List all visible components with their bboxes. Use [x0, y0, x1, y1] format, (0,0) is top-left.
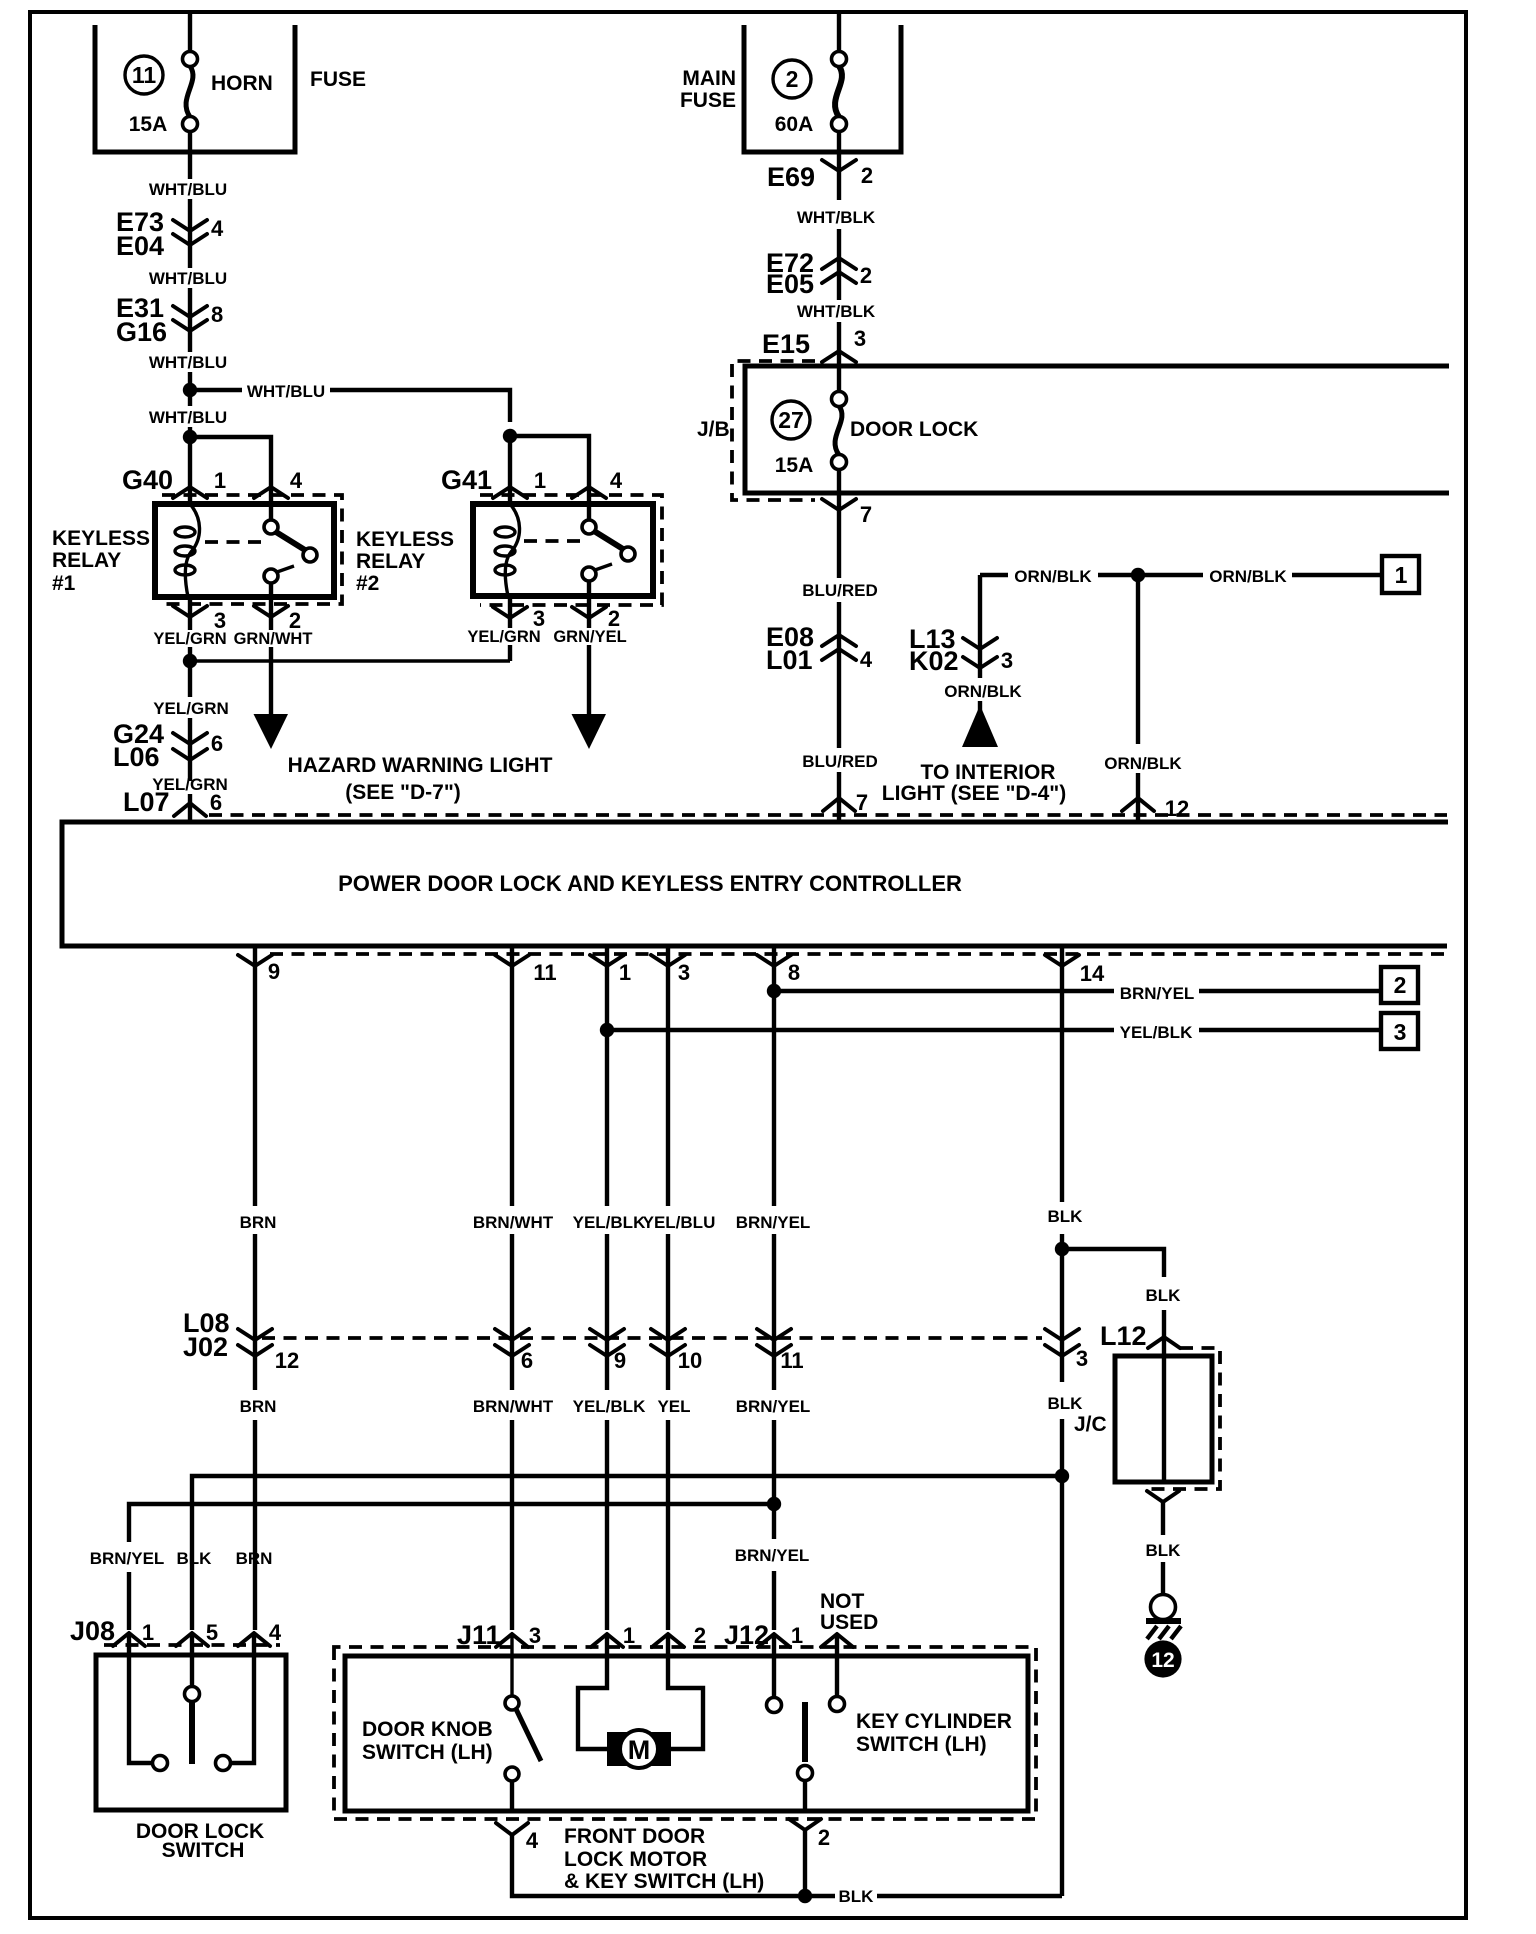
- svg-text:15A: 15A: [129, 113, 168, 136]
- svg-text:60A: 60A: [775, 113, 814, 136]
- connector L07 / controller pin 6: [123, 787, 222, 822]
- relay G41 coil-switch link: [524, 539, 583, 543]
- svg-text:E05: E05: [766, 269, 814, 299]
- wire segment: [837, 229, 841, 300]
- label DOOR LOCK SWITCH: [136, 1820, 264, 1862]
- connector E73/E04: [116, 207, 224, 261]
- svg-text:YEL/BLU: YEL/BLU: [643, 1213, 716, 1232]
- label DOOR KNOB SWITCH (LH): [362, 1718, 493, 1764]
- svg-text:L07: L07: [123, 787, 170, 817]
- svg-text:TO INTERIOR: TO INTERIOR: [921, 761, 1056, 784]
- svg-text:#2: #2: [356, 572, 379, 595]
- svg-text:7: 7: [860, 502, 872, 527]
- relay G41 body: [473, 504, 653, 596]
- relay G40 pin 3: [173, 597, 226, 661]
- connector J08 dashed line: [104, 1643, 280, 1647]
- relay G40 pin 1: [173, 468, 226, 498]
- svg-text:4: 4: [610, 468, 623, 493]
- svg-text:BLU/RED: BLU/RED: [802, 752, 878, 771]
- label TO INTERIOR LIGHT: [882, 761, 1066, 805]
- svg-text:FRONT DOOR: FRONT DOOR: [564, 1825, 705, 1848]
- svg-text:2: 2: [818, 1825, 830, 1850]
- svg-text:3: 3: [1394, 1019, 1407, 1045]
- connector J08 pin 5: [176, 1620, 218, 1646]
- svg-text:KEYLESS: KEYLESS: [356, 528, 454, 551]
- label KEYLESS RELAY #1: [52, 527, 150, 595]
- svg-text:RELAY: RELAY: [52, 549, 121, 572]
- door knob switch: [505, 1634, 541, 1811]
- svg-text:GRN/WHT: GRN/WHT: [234, 630, 313, 648]
- relay G40 coil-switch link: [205, 540, 265, 544]
- svg-text:WHT/BLU: WHT/BLU: [149, 408, 227, 427]
- wire BLK line A (to J08 pin 5): [192, 1476, 1062, 1630]
- svg-text:12: 12: [1151, 1649, 1174, 1672]
- arrow to interior light: [962, 705, 998, 747]
- motor wires: [578, 1634, 703, 1749]
- wire BLK to ground: [1161, 1562, 1165, 1595]
- controller box: [62, 822, 1448, 946]
- svg-text:YEL/GRN: YEL/GRN: [153, 699, 229, 718]
- svg-text:9: 9: [614, 1348, 626, 1373]
- svg-text:5: 5: [206, 1620, 218, 1645]
- connector E72/E05: [766, 248, 872, 299]
- svg-text:BRN/YEL: BRN/YEL: [90, 1549, 165, 1568]
- connector J11 pin 1: [591, 1623, 635, 1648]
- connector L12: [1100, 1321, 1180, 1351]
- svg-text:HORN: HORN: [211, 72, 273, 95]
- wire G41 pin1: [508, 436, 512, 504]
- connector box 2: [1381, 967, 1418, 1003]
- svg-text:15A: 15A: [775, 454, 814, 477]
- svg-text:4: 4: [290, 468, 303, 493]
- svg-text:ORN/BLK: ORN/BLK: [1209, 567, 1287, 586]
- svg-text:#1: #1: [52, 572, 76, 595]
- wire from frame top to main fuse: [837, 12, 841, 53]
- J/B dashed outline: [732, 361, 815, 500]
- svg-text:3: 3: [854, 326, 866, 351]
- svg-text:BRN: BRN: [236, 1549, 273, 1568]
- svg-text:3: 3: [1001, 648, 1013, 673]
- junction node YEL/BLK (pin 1): [600, 1023, 614, 1037]
- circled 11: [125, 56, 163, 94]
- wire door lock fuse pin 7: [822, 469, 872, 578]
- relay G40 body: [155, 504, 334, 597]
- svg-text:2: 2: [786, 66, 799, 92]
- connector J11 pin 3: [496, 1623, 541, 1648]
- svg-text:WHT/BLK: WHT/BLK: [797, 208, 876, 227]
- motor assembly dashed box: [334, 1647, 1036, 1819]
- wire GRN/YEL to hazard arrow: [587, 645, 591, 717]
- wire YEL/GRN down from junction: [188, 661, 192, 697]
- svg-text:E04: E04: [116, 231, 164, 261]
- wire segment: [837, 602, 841, 748]
- relay G40 coil: [175, 504, 200, 597]
- connector L08/J02 pin 3 (BLK): [1045, 1329, 1088, 1371]
- svg-text:BRN/WHT: BRN/WHT: [473, 1397, 554, 1416]
- svg-text:BLK: BLK: [1048, 1207, 1084, 1226]
- relay G40 dashed connector box: [162, 495, 342, 604]
- svg-text:8: 8: [788, 960, 800, 985]
- svg-text:6: 6: [210, 790, 222, 815]
- wire segment: [188, 718, 192, 781]
- hazard arrow 1 (GRN/WHT): [254, 714, 289, 749]
- wire GRN/WHT to hazard arrow: [269, 647, 273, 717]
- svg-text:6: 6: [211, 731, 223, 756]
- svg-text:E69: E69: [767, 162, 815, 192]
- wire segment: [188, 288, 192, 352]
- connector L08/J02 pin 12: [238, 1329, 299, 1373]
- wire BRN/WHT down: [510, 1234, 514, 1630]
- svg-text:1: 1: [142, 1620, 154, 1645]
- svg-text:WHT/BLU: WHT/BLU: [149, 269, 227, 288]
- controller pin 14: [1045, 946, 1105, 1202]
- svg-text:L12: L12: [1100, 1321, 1147, 1351]
- svg-text:YEL/BLK: YEL/BLK: [1120, 1023, 1193, 1042]
- svg-text:7: 7: [856, 790, 868, 815]
- svg-text:E15: E15: [762, 329, 810, 359]
- connector J08 pin 4: [238, 1620, 282, 1646]
- door lock switch box: [96, 1655, 286, 1810]
- junction node BLK (branch to L12): [1055, 1242, 1069, 1256]
- svg-text:LIGHT (SEE "D-4"): LIGHT (SEE "D-4"): [882, 782, 1066, 805]
- wire YEL down: [666, 1234, 670, 1630]
- controller pin 9: [238, 946, 280, 1206]
- svg-text:DOOR KNOB: DOOR KNOB: [362, 1718, 493, 1741]
- connector box 1: [1382, 556, 1419, 593]
- svg-text:ORN/BLK: ORN/BLK: [1104, 754, 1182, 773]
- ground symbol 12: [1144, 1595, 1181, 1678]
- svg-text:2: 2: [694, 1623, 706, 1648]
- svg-text:BRN/YEL: BRN/YEL: [1120, 984, 1195, 1003]
- connector E15: [762, 326, 866, 362]
- svg-text:BLK: BLK: [1048, 1394, 1084, 1413]
- wire from frame top to fuse 11: [188, 12, 192, 53]
- junction node (G41 branch): [503, 429, 517, 443]
- svg-text:YEL/GRN: YEL/GRN: [153, 630, 226, 648]
- controller pin 3: [651, 946, 690, 1206]
- label KEY CYLINDER SWITCH (LH): [856, 1710, 1012, 1756]
- connector E69: [767, 160, 873, 192]
- connector L08/J02 pin 11: [757, 1329, 804, 1373]
- svg-text:3: 3: [678, 960, 690, 985]
- junction node BLK (bottom): [798, 1889, 812, 1903]
- motor pin 4: [496, 1823, 798, 1896]
- svg-text:1: 1: [534, 468, 546, 493]
- wire YEL/GRN bus to G41 pin3: [190, 659, 510, 662]
- svg-text:12: 12: [275, 1348, 299, 1373]
- connector E31/G16: [116, 293, 223, 347]
- junction node BRN/YEL (pin 8): [767, 984, 781, 998]
- motor assembly solid box: [345, 1656, 1028, 1811]
- svg-text:10: 10: [678, 1348, 702, 1373]
- key cylinder switch contacts: [767, 1634, 845, 1811]
- svg-text:12: 12: [1165, 796, 1189, 821]
- wire WHT/BLU fuse11 to E73: [188, 131, 192, 179]
- connector J12 pin 1: [758, 1623, 803, 1648]
- svg-text:KEYLESS: KEYLESS: [52, 527, 150, 550]
- relay G41 switch: [582, 504, 635, 596]
- circled 2: [773, 60, 811, 98]
- connector L08/J02 pin 9: [590, 1329, 626, 1373]
- label KEYLESS RELAY #2: [356, 528, 454, 595]
- wire YEL/BLK to box 3: [607, 1028, 1381, 1032]
- svg-text:RELAY: RELAY: [356, 550, 425, 573]
- controller pin 1: [590, 946, 631, 1206]
- svg-text:6: 6: [521, 1348, 533, 1373]
- svg-text:BRN/YEL: BRN/YEL: [735, 1546, 810, 1565]
- hazard arrow 2 (GRN/YEL): [572, 714, 607, 749]
- svg-text:BRN/WHT: BRN/WHT: [473, 1213, 554, 1232]
- connector row L08/J02 dashed line: [262, 1336, 1042, 1340]
- wire BRN/YEL down: [772, 1234, 776, 1504]
- wire to controller pin 7: [823, 772, 868, 822]
- svg-text:4: 4: [526, 1828, 539, 1853]
- wire branch to G40 pin 4: [190, 437, 271, 504]
- svg-text:11: 11: [533, 960, 556, 985]
- svg-text:YEL/BLK: YEL/BLK: [573, 1397, 646, 1416]
- junction node YEL/GRN: [183, 654, 197, 668]
- svg-text:YEL/GRN: YEL/GRN: [467, 628, 540, 646]
- wire BLK down: [1060, 1234, 1064, 1896]
- controller pin 12 chevron: [1122, 796, 1189, 821]
- connector J11 pin 2: [652, 1623, 706, 1648]
- svg-text:1: 1: [623, 1623, 635, 1648]
- svg-text:11: 11: [780, 1348, 803, 1373]
- wire ORN/BLK down to controller pin 12: [1136, 575, 1140, 822]
- svg-text:& KEY SWITCH (LH): & KEY SWITCH (LH): [564, 1870, 764, 1893]
- svg-text:4: 4: [860, 647, 873, 672]
- label L08/J02: [183, 1308, 230, 1362]
- relay G41 pin 4: [572, 468, 623, 498]
- relay G40 pin 4: [254, 468, 303, 498]
- wire ORN/BLK horizontal: [980, 573, 1382, 577]
- svg-text:8: 8: [211, 302, 223, 327]
- svg-text:L01: L01: [766, 645, 813, 675]
- svg-text:FUSE: FUSE: [680, 89, 736, 112]
- junction node ORN/BLK: [1131, 568, 1145, 582]
- svg-text:4: 4: [269, 1620, 282, 1645]
- main fuse box outline: [744, 25, 901, 152]
- svg-text:BRN/YEL: BRN/YEL: [736, 1397, 811, 1416]
- svg-text:HAZARD WARNING LIGHT: HAZARD WARNING LIGHT: [288, 754, 553, 777]
- wire branch to G41 pin 4: [510, 436, 589, 504]
- wire main fuse to E69: [837, 131, 841, 200]
- label FRONT DOOR LOCK MOTOR & KEY SWITCH (LH): [564, 1825, 764, 1893]
- motor M: [607, 1730, 671, 1768]
- svg-text:4: 4: [211, 216, 224, 241]
- svg-text:9: 9: [268, 959, 280, 984]
- svg-text:14: 14: [1080, 961, 1105, 986]
- svg-text:ORN/BLK: ORN/BLK: [944, 682, 1022, 701]
- svg-text:BRN: BRN: [240, 1397, 277, 1416]
- svg-text:BLU/RED: BLU/RED: [802, 581, 878, 600]
- connector G24/L06: [113, 719, 223, 772]
- svg-text:3: 3: [1076, 1346, 1088, 1371]
- door lock switch contacts: [129, 1633, 254, 1771]
- svg-text:M: M: [628, 1735, 651, 1765]
- svg-text:SWITCH (LH): SWITCH (LH): [362, 1741, 493, 1764]
- svg-text:BLK: BLK: [1146, 1286, 1182, 1305]
- svg-text:J/B: J/B: [697, 418, 730, 441]
- controller pin 11: [495, 946, 557, 1206]
- connector L08/J02 pin 10: [651, 1329, 702, 1373]
- label MAIN FUSE: [680, 67, 736, 112]
- relay G41 coil: [495, 504, 520, 596]
- svg-text:ORN/BLK: ORN/BLK: [1014, 567, 1092, 586]
- connector L08/J02 pin 6: [495, 1329, 533, 1373]
- label HAZARD WARNING LIGHT: [288, 754, 553, 804]
- svg-text:K02: K02: [909, 646, 959, 676]
- svg-text:1: 1: [214, 468, 226, 493]
- svg-text:27: 27: [778, 407, 804, 433]
- svg-text:YEL: YEL: [657, 1397, 690, 1416]
- svg-text:DOOR LOCK: DOOR LOCK: [850, 418, 978, 441]
- svg-text:2: 2: [860, 263, 872, 288]
- svg-text:2: 2: [861, 163, 873, 188]
- svg-text:2: 2: [1394, 972, 1407, 998]
- wire BRN/YEL to box 2: [774, 989, 1381, 993]
- svg-text:G41: G41: [441, 465, 492, 495]
- svg-text:J08: J08: [70, 1616, 115, 1646]
- junction block fuse box outline: [745, 366, 1449, 493]
- wire BRN down: [253, 1234, 257, 1630]
- wire stub to interior light arrow: [978, 701, 982, 712]
- svg-text:3: 3: [529, 1623, 541, 1648]
- connector box 3: [1381, 1013, 1418, 1049]
- wire BLK branch to L12: [1062, 1249, 1164, 1356]
- svg-text:SWITCH: SWITCH: [162, 1839, 245, 1862]
- J/C bottom chevron: [1147, 1491, 1179, 1535]
- junction node (G40 branch): [183, 430, 197, 444]
- svg-text:G40: G40: [122, 465, 173, 495]
- connector J12 pin not used: [820, 1590, 878, 1647]
- svg-text:BRN: BRN: [240, 1213, 277, 1232]
- fuse 11 symbol: [183, 52, 198, 132]
- svg-text:MAIN: MAIN: [682, 67, 736, 90]
- relay G41 dashed connector box: [480, 495, 662, 605]
- svg-text:J02: J02: [183, 1332, 228, 1362]
- svg-text:G16: G16: [116, 317, 167, 347]
- relay G41 pin 3: [493, 596, 545, 661]
- junction node WHT/BLU: [183, 383, 197, 397]
- svg-text:LOCK MOTOR: LOCK MOTOR: [564, 1848, 707, 1871]
- svg-text:POWER DOOR LOCK AND KEYLESS EN: POWER DOOR LOCK AND KEYLESS ENTRY CONTRO…: [338, 871, 962, 896]
- svg-text:KEY CYLINDER: KEY CYLINDER: [856, 1710, 1012, 1733]
- wire segment: [188, 427, 192, 504]
- svg-text:BLK: BLK: [1146, 1541, 1182, 1560]
- svg-text:BRN/YEL: BRN/YEL: [736, 1213, 811, 1232]
- connector J08 pin 1: [113, 1620, 154, 1646]
- svg-text:YEL/BLK: YEL/BLK: [573, 1213, 646, 1232]
- wire ORN/BLK down to L13/K02: [978, 575, 982, 678]
- junction node BRN/YEL (line B): [767, 1497, 781, 1511]
- connector L13/K02: [909, 624, 1013, 676]
- svg-text:J11: J11: [457, 1620, 501, 1650]
- svg-text:WHT/BLU: WHT/BLU: [247, 382, 325, 401]
- svg-text:WHT/BLU: WHT/BLU: [149, 353, 227, 372]
- wire segment: [188, 372, 192, 406]
- circled 27: [772, 401, 810, 439]
- controller connector dashed line (top): [209, 813, 1447, 817]
- wire segment: [837, 322, 841, 392]
- wire BRN/YEL down to J12: [772, 1504, 776, 1630]
- svg-text:J/C: J/C: [1074, 1413, 1107, 1436]
- wire BRN/YEL line B (to J08 pin 1): [129, 1504, 774, 1630]
- wire branch WHT/BLU to G41: [190, 390, 510, 422]
- relay G40 switch: [264, 504, 317, 597]
- controller connector dashed line (bottom): [270, 952, 1446, 956]
- fuse box 11 HORN outline: [95, 25, 295, 152]
- svg-text:(SEE "D-7"): (SEE "D-7"): [345, 781, 461, 804]
- key switch pin 2: [789, 1819, 830, 1896]
- svg-text:BLK: BLK: [839, 1887, 875, 1906]
- wire YEL/BLK down: [605, 1234, 609, 1630]
- main fuse 60A symbol: [832, 52, 847, 132]
- svg-text:BLK: BLK: [177, 1549, 213, 1568]
- relay G40 pin 2: [254, 597, 301, 633]
- svg-text:GRN/YEL: GRN/YEL: [553, 628, 626, 646]
- svg-text:NOT: NOT: [820, 1590, 865, 1613]
- wire segment: [188, 199, 192, 268]
- junction node BLK (line A): [1055, 1469, 1069, 1483]
- wire BLK bottom to ground riser: [805, 1894, 1062, 1898]
- svg-text:1: 1: [791, 1623, 803, 1648]
- relay G41 pin 1: [493, 468, 546, 498]
- svg-text:FUSE: FUSE: [310, 68, 366, 91]
- svg-text:USED: USED: [820, 1611, 878, 1634]
- fuse 27 DOOR LOCK symbol: [832, 392, 847, 470]
- svg-text:WHT/BLK: WHT/BLK: [797, 302, 876, 321]
- svg-text:L06: L06: [113, 742, 160, 772]
- svg-text:WHT/BLU: WHT/BLU: [149, 180, 227, 199]
- connector E08/L01: [766, 622, 873, 675]
- controller pin 8: [757, 946, 800, 1206]
- junction connector J/C box: [1115, 1348, 1220, 1489]
- svg-text:11: 11: [132, 62, 157, 88]
- svg-text:1: 1: [1395, 562, 1408, 588]
- relay G41 pin 2: [572, 596, 620, 631]
- svg-text:1: 1: [619, 960, 631, 985]
- svg-text:SWITCH (LH): SWITCH (LH): [856, 1733, 987, 1756]
